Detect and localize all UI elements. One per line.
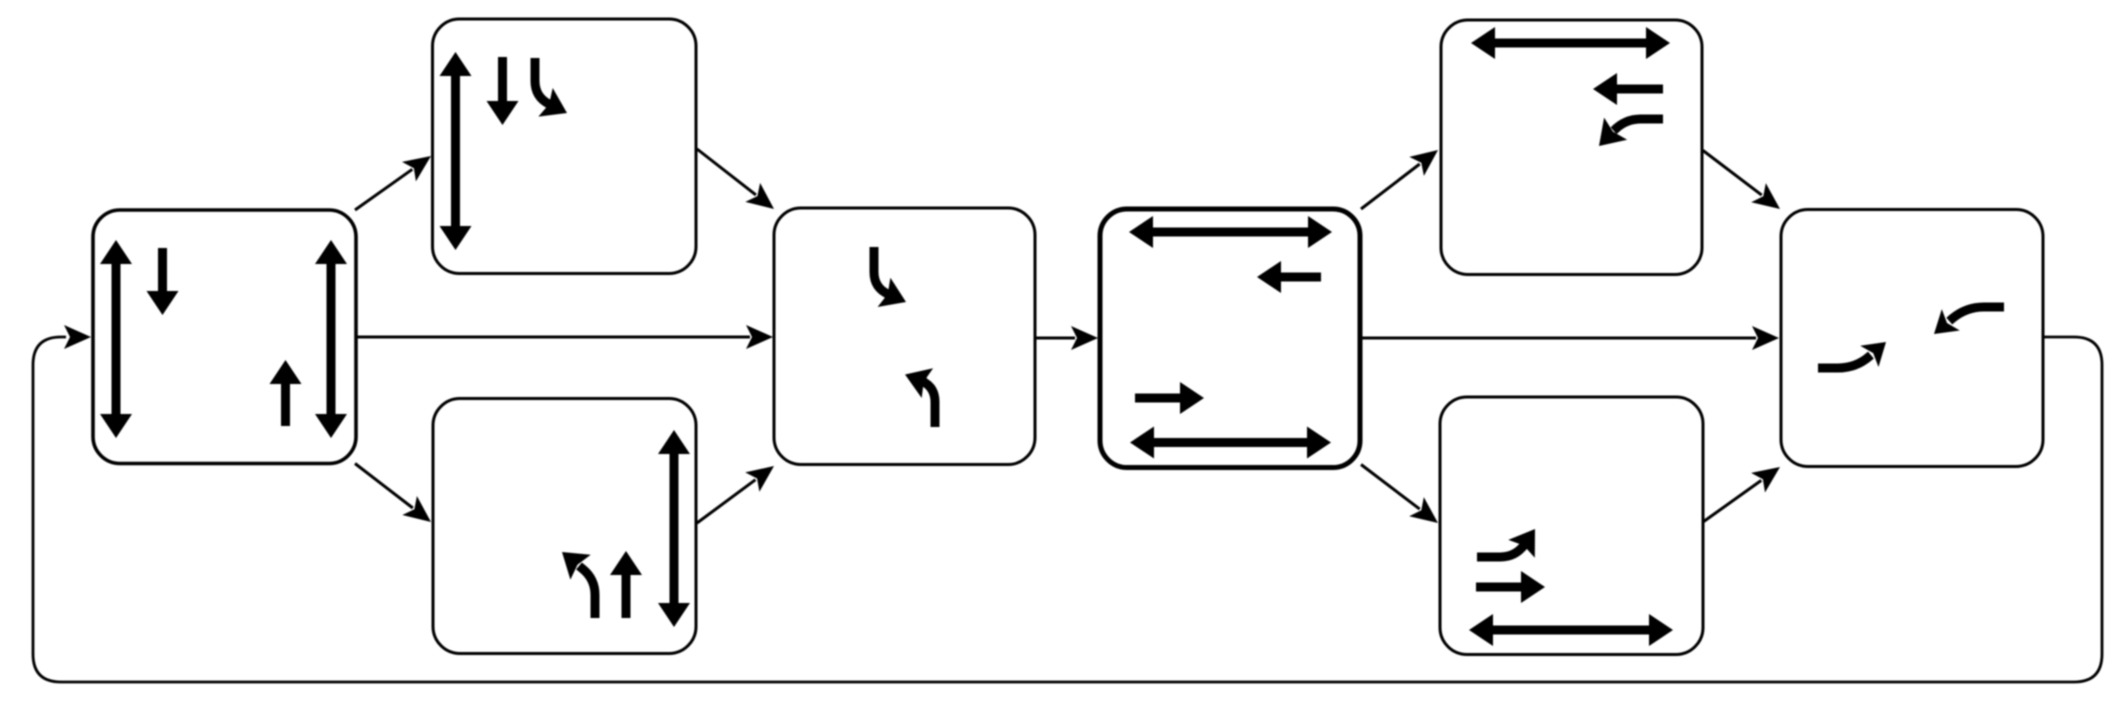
wire S6 to S8 [1703,151,1762,196]
wire S1 to S3 [355,464,413,509]
S5 eastbound arrow [1135,394,1182,403]
S3 northbound arrow [622,573,631,618]
S2 south-then-west turn arrow [535,58,549,104]
wire S7 to S8 [1703,480,1761,522]
node S6 state box [1441,20,1702,275]
S5 westbound arrow [1279,273,1321,282]
wire feedback loop from state S8 back to state S1 [33,337,2102,682]
S5 bottom two-way horizontal arrow [1152,438,1309,447]
wire S1 to S4 [356,336,750,339]
S1 left two-way vertical arrow [112,262,121,416]
node S5 state box (E-W phase, thick border) [1100,209,1360,468]
S7 eastbound arrow [1476,583,1523,592]
wire S3 to S4 [697,480,756,523]
wire S5 to S8 [1360,337,1756,340]
node S2 state box [433,19,697,274]
S2 southbound arrow [498,57,507,103]
wire S5 to S7 [1361,465,1420,510]
S2 left two-way vertical arrow [451,74,460,228]
S7 bottom two-way horizontal arrow [1491,626,1651,635]
S7 east-then-north turn arrow [1477,544,1525,557]
S4 south-then-east turn arrow [874,247,889,294]
node S3 state box [433,399,696,654]
wire S2 to S4 [697,149,756,195]
S5 top two-way horizontal arrow [1151,228,1310,237]
S1 southbound arrow [158,248,167,293]
node S8 state box [1781,210,2043,467]
node S7 state box [1440,397,1703,655]
wire S4 to S5 [1035,337,1075,340]
S8 west-then-south small turn arrow [1949,307,2004,321]
S1 northbound arrow [281,382,290,426]
S8 east-then-north small turn arrow [1818,355,1871,368]
S6 west-then-south turn arrow [1614,119,1663,131]
S6 westbound arrow [1615,85,1663,94]
S6 top two-way horizontal arrow [1493,39,1648,48]
wire S5 to S6 [1361,164,1420,209]
S1 right two-way vertical arrow [327,262,336,416]
node S4 state box [774,208,1035,465]
wire S1 to S2 [355,169,412,210]
wire feedback loop arrowhead into state S1 [64,325,91,349]
node S1 state box (N-S through + left-turn phase) [93,210,356,464]
S4 north-then-west turn arrow [920,380,935,427]
S3 right two-way vertical arrow [670,452,679,605]
S3 north-then-left turn arrow [579,566,595,618]
